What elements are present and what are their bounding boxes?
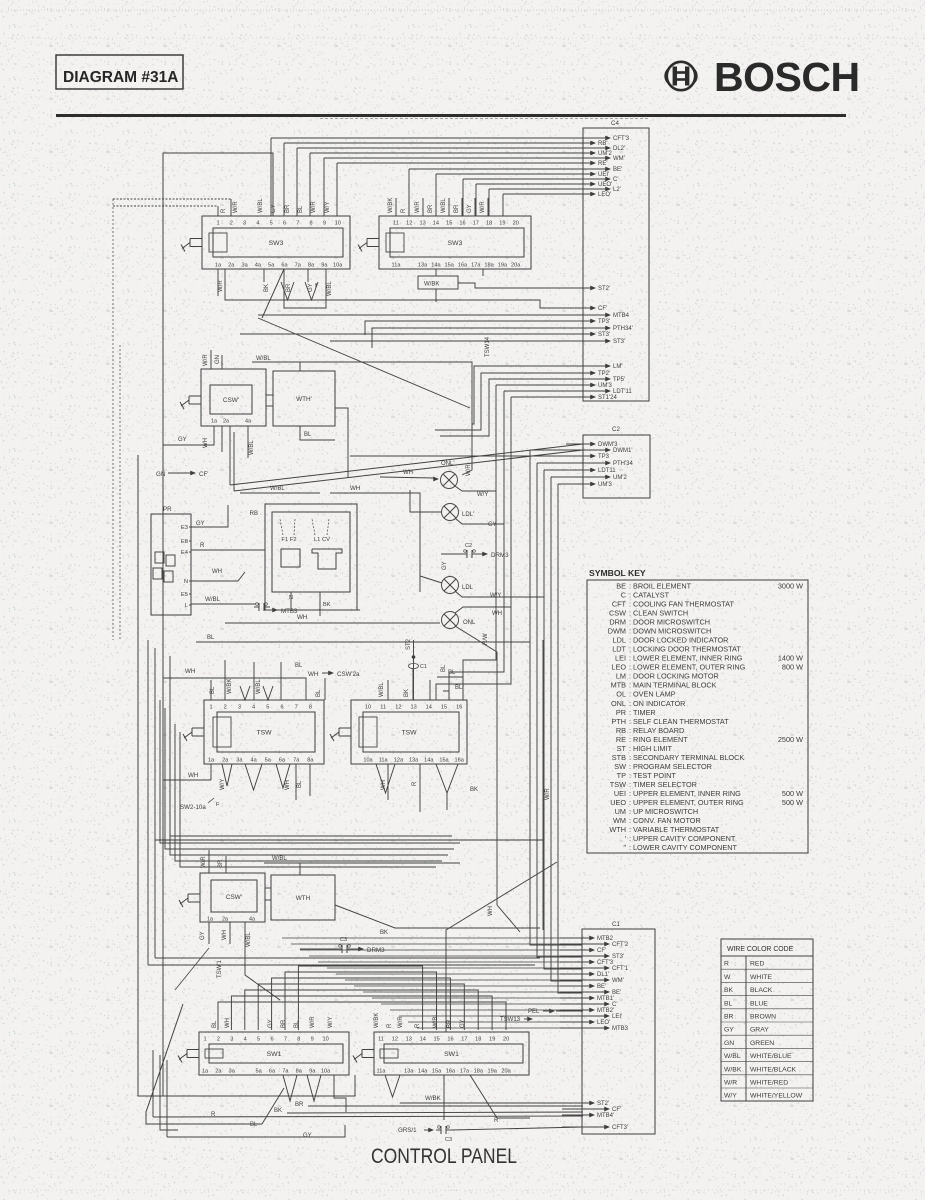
- svg-text:TSW: TSW: [401, 730, 417, 737]
- svg-text:16: 16: [447, 1037, 453, 1043]
- svg-text:R/W: R/W: [483, 633, 489, 645]
- svg-text:11a: 11a: [377, 1069, 387, 1075]
- svg-text:CFT'3: CFT'3: [613, 136, 630, 142]
- svg-text:9a: 9a: [309, 1069, 316, 1075]
- wire W/Y upper: [455, 486, 496, 498]
- lamp ONL upper: [380, 440, 472, 489]
- svg-text:WM': WM': [613, 156, 625, 162]
- svg-text:5: 5: [257, 1037, 260, 1043]
- svg-text:BL: BL: [212, 1020, 218, 1028]
- svg-text:SW1: SW1: [444, 1051, 459, 1058]
- wires into C1: [282, 938, 582, 1028]
- svg-text:WH: WH: [403, 470, 413, 476]
- svg-text:14: 14: [426, 705, 432, 711]
- svg-text:2: 2: [224, 705, 227, 711]
- svg-text:W/Y: W/Y: [220, 779, 226, 790]
- svg-text:WM': WM': [612, 978, 624, 984]
- svg-text:3a: 3a: [236, 758, 243, 764]
- svg-text:GN: GN: [724, 1040, 734, 1047]
- wire left rail 2: [137, 455, 139, 1088]
- svg-text:W/BK: W/BK: [388, 198, 394, 213]
- svg-text:LOCKING DOOR THERMOSTAT: LOCKING DOOR THERMOSTAT: [633, 645, 741, 654]
- svg-text:F1 F2: F1 F2: [281, 537, 296, 543]
- wire WH to TSW: [163, 678, 306, 700]
- svg-text:PTH34': PTH34': [613, 326, 633, 332]
- svg-text:10: 10: [322, 1037, 328, 1043]
- svg-text:LEI': LEI': [612, 1014, 622, 1020]
- thermostat WTH upper: [266, 371, 335, 426]
- svg-text:1: 1: [209, 705, 212, 711]
- svg-text:PTH'34: PTH'34: [613, 461, 633, 467]
- relay board RB: [250, 504, 357, 616]
- svg-text::: :: [629, 825, 631, 834]
- svg-text:8a: 8a: [308, 263, 315, 269]
- svg-text:W/BK: W/BK: [424, 282, 439, 288]
- svg-text:18a: 18a: [484, 263, 494, 269]
- wire WH long: [225, 614, 440, 623]
- switch SW3 upper-left: [181, 216, 350, 269]
- svg-text:W: W: [724, 974, 731, 981]
- svg-text:BL: BL: [441, 664, 447, 672]
- svg-text:12: 12: [392, 1037, 398, 1043]
- wire W/R diagonal to SW1: [446, 660, 557, 1032]
- svg-text:LDT11: LDT11: [598, 468, 616, 474]
- svg-text:CF': CF': [199, 471, 208, 478]
- caption CONTROL PANEL: [371, 1145, 517, 1168]
- svg-text:20: 20: [513, 221, 519, 227]
- wire BK lower: [335, 905, 540, 936]
- symbol key table: [587, 568, 808, 853]
- svg-text::: :: [629, 672, 631, 681]
- svg-text:LDT: LDT: [612, 645, 626, 654]
- svg-text:1400 W: 1400 W: [778, 654, 803, 663]
- svg-text:3: 3: [238, 705, 241, 711]
- svg-text:W/BL: W/BL: [256, 356, 271, 362]
- svg-text:DOWN MICROSWITCH: DOWN MICROSWITCH: [633, 627, 711, 636]
- svg-text:R: R: [412, 781, 418, 786]
- svg-text:UEO: UEO: [610, 798, 626, 807]
- svg-text:MTB: MTB: [611, 681, 627, 690]
- svg-text:DWM: DWM: [608, 627, 626, 636]
- svg-text:E5: E5: [181, 592, 188, 598]
- svg-text:3a: 3a: [241, 263, 248, 269]
- terminal block C2: [583, 426, 650, 498]
- svg-text:R: R: [401, 208, 407, 213]
- svg-text:6a: 6a: [281, 263, 288, 269]
- svg-text:W/R: W/R: [203, 354, 209, 366]
- svg-text:TP5': TP5': [613, 377, 625, 383]
- svg-text:CF': CF': [598, 306, 607, 312]
- svg-text:RE': RE': [598, 161, 607, 167]
- wire left bottom frame: [138, 1004, 183, 1137]
- svg-text:″: ″: [623, 843, 626, 852]
- svg-text:CLEAN SWITCH: CLEAN SWITCH: [633, 609, 688, 618]
- svg-text:E3: E3: [181, 525, 188, 531]
- svg-text:CSW': CSW': [223, 397, 239, 404]
- wire labels above SW3 upper-right: [388, 198, 486, 213]
- svg-text:16a: 16a: [458, 263, 468, 269]
- svg-text:UEO': UEO': [598, 182, 612, 188]
- svg-text:11a: 11a: [379, 758, 389, 764]
- svg-text:W/R: W/R: [480, 201, 486, 213]
- svg-text:WH: WH: [297, 614, 307, 621]
- svg-text:12: 12: [406, 221, 412, 227]
- svg-text:TEST POINT: TEST POINT: [633, 771, 676, 780]
- svg-text:ST2': ST2': [597, 1101, 609, 1107]
- svg-text:BL: BL: [250, 1122, 258, 1128]
- svg-text:MAIN TERMINAL BLOCK: MAIN TERMINAL BLOCK: [633, 681, 717, 690]
- svg-text:ONL: ONL: [463, 620, 476, 626]
- svg-text::: :: [629, 789, 631, 798]
- svg-text:20a: 20a: [511, 263, 521, 269]
- svg-text:18a: 18a: [474, 1069, 484, 1075]
- svg-text:DRM3: DRM3: [491, 552, 509, 559]
- svg-text:500 W: 500 W: [782, 798, 803, 807]
- svg-text:DWM1': DWM1': [613, 448, 632, 454]
- svg-text:BE': BE': [597, 984, 606, 990]
- svg-text:BK: BK: [470, 787, 478, 793]
- wire pair to left edge: [113, 199, 231, 206]
- svg-text:GY: GY: [308, 283, 314, 292]
- svg-text::: :: [629, 717, 631, 726]
- wire labels above SW1 left: [212, 1016, 334, 1028]
- svg-text:5: 5: [266, 705, 269, 711]
- svg-text::: :: [629, 708, 631, 717]
- svg-text:RB: RB: [616, 726, 626, 735]
- svg-text:BLUE: BLUE: [750, 1000, 768, 1007]
- wire stubs SW3 pins: [218, 198, 488, 216]
- svg-text:7a: 7a: [295, 263, 302, 269]
- svg-text:13: 13: [419, 221, 425, 227]
- net label MTB3: [254, 603, 360, 615]
- svg-text:10: 10: [365, 705, 371, 711]
- svg-text:WHITE/BLACK: WHITE/BLACK: [750, 1066, 797, 1073]
- svg-text:9a: 9a: [321, 263, 328, 269]
- svg-text:BL: BL: [724, 1000, 733, 1007]
- svg-text:W/BL: W/BL: [256, 679, 262, 694]
- svg-text:WHITE/YELLOW: WHITE/YELLOW: [750, 1093, 803, 1100]
- svg-text::: :: [629, 807, 631, 816]
- svg-text:·: ·: [763, 1188, 765, 1194]
- svg-text:WH: WH: [492, 611, 502, 617]
- lamp LDL lower: [420, 560, 474, 594]
- svg-text::: :: [629, 780, 631, 789]
- svg-text:13: 13: [410, 705, 416, 711]
- svg-text:MTB4: MTB4: [613, 313, 630, 319]
- svg-text::: :: [629, 744, 631, 753]
- svg-text:RE: RE: [616, 735, 626, 744]
- svg-text:LM': LM': [613, 364, 622, 370]
- wire diagonal SW3 to WTH: [258, 269, 470, 408]
- svg-text:4a: 4a: [255, 263, 262, 269]
- svg-text:CFT'1: CFT'1: [612, 966, 629, 972]
- wire outer frame top-left: [163, 153, 273, 1096]
- svg-text:16: 16: [456, 705, 462, 711]
- svg-text:E4: E4: [181, 550, 189, 556]
- wires below CSW upper: [163, 426, 335, 458]
- svg-text:LOWER CAVITY COMPONENT: LOWER CAVITY COMPONENT: [633, 843, 737, 852]
- svg-text:LEI: LEI: [615, 654, 626, 663]
- svg-text:W/BL: W/BL: [249, 440, 255, 455]
- svg-text:SW2-10a: SW2-10a: [180, 804, 206, 811]
- wire bundle feed left: [148, 640, 540, 965]
- svg-text::: :: [629, 771, 631, 780]
- svg-text:TIMER SELECTOR: TIMER SELECTOR: [633, 780, 697, 789]
- svg-text:18: 18: [475, 1037, 481, 1043]
- svg-text:16: 16: [459, 221, 465, 227]
- svg-text:DRM3: DRM3: [367, 947, 385, 954]
- svg-text:UPPER ELEMENT, OUTER RING: UPPER ELEMENT, OUTER RING: [633, 798, 744, 807]
- svg-text:RING ELEMENT: RING ELEMENT: [633, 735, 688, 744]
- svg-text:16a: 16a: [446, 1069, 456, 1075]
- svg-text:6a: 6a: [279, 758, 286, 764]
- svg-text:8: 8: [297, 1037, 300, 1043]
- svg-text:W/BL: W/BL: [272, 856, 287, 862]
- svg-text:DRM: DRM: [609, 618, 626, 627]
- svg-text::: :: [629, 618, 631, 627]
- terminal C4 middle rows: [565, 286, 633, 346]
- svg-text:N: N: [184, 579, 188, 585]
- Bosch logo emblem: [665, 62, 696, 90]
- svg-text:3: 3: [230, 1037, 233, 1043]
- wire W/BK below SW3 upper-right: [418, 269, 583, 302]
- svg-text::: :: [629, 690, 631, 699]
- svg-text:UP MICROSWITCH: UP MICROSWITCH: [633, 807, 698, 816]
- svg-text:BOSCH: BOSCH: [714, 54, 860, 100]
- svg-text:WH: WH: [222, 930, 228, 940]
- svg-text:BL: BL: [316, 689, 322, 697]
- svg-text:W/R: W/R: [415, 201, 421, 213]
- svg-text:5a: 5a: [265, 758, 272, 764]
- svg-text:ST1'24: ST1'24: [598, 395, 617, 401]
- svg-text:1a: 1a: [215, 263, 222, 269]
- svg-text:BK: BK: [404, 689, 410, 697]
- svg-text::: :: [629, 726, 631, 735]
- svg-text:8a: 8a: [307, 758, 314, 764]
- svg-text:W/Y: W/Y: [328, 1017, 334, 1028]
- svg-text:PTH: PTH: [611, 717, 626, 726]
- svg-text:CFT'2: CFT'2: [612, 942, 629, 948]
- wire bus C4 lower rows: [435, 366, 583, 700]
- switch SW1 right: [353, 1032, 529, 1075]
- svg-text:W/R: W/R: [218, 280, 224, 292]
- header rule: [56, 116, 846, 119]
- svg-text:CSW: CSW: [609, 609, 626, 618]
- svg-text:SW3: SW3: [448, 240, 463, 247]
- svg-text:GY: GY: [442, 561, 448, 570]
- svg-text::: :: [629, 645, 631, 654]
- svg-text:GY: GY: [724, 1027, 734, 1034]
- svg-text:R: R: [221, 208, 227, 213]
- svg-text:LEO': LEO': [598, 192, 611, 198]
- svg-text:GY: GY: [268, 1019, 274, 1028]
- svg-text:W/BL: W/BL: [441, 198, 447, 213]
- switch CSW upper: [180, 369, 266, 426]
- net label TSW1: [175, 948, 223, 990]
- svg-text:2a: 2a: [223, 419, 229, 425]
- svg-text:WH: WH: [225, 1018, 231, 1028]
- svg-text:16a: 16a: [455, 758, 465, 764]
- svg-text:2a: 2a: [222, 758, 229, 764]
- svg-text:15a: 15a: [445, 263, 455, 269]
- net label GN to CF: [156, 471, 208, 478]
- svg-text:2a: 2a: [215, 1069, 222, 1075]
- svg-text:19: 19: [499, 221, 505, 227]
- svg-text:BR: BR: [724, 1014, 734, 1021]
- svg-text:RB: RB: [250, 511, 258, 517]
- svg-text:LOWER ELEMENT, OUTER RING: LOWER ELEMENT, OUTER RING: [633, 663, 746, 672]
- svg-text:BR: BR: [218, 859, 224, 868]
- svg-text:W/R: W/R: [201, 856, 207, 868]
- svg-text:1a: 1a: [211, 419, 217, 425]
- svg-text:UEI: UEI: [614, 789, 626, 798]
- svg-text:WH: WH: [188, 772, 198, 779]
- switch SW3 upper-right: [358, 216, 531, 269]
- svg-text::: :: [629, 600, 631, 609]
- svg-text:BL: BL: [207, 635, 215, 641]
- wire R/W diagonal: [455, 626, 497, 660]
- svg-text:CFT3': CFT3': [612, 1125, 628, 1131]
- net label SW2-10a: [180, 798, 220, 811]
- svg-text:ST2': ST2': [598, 286, 610, 292]
- wire dark horizontal: [155, 839, 543, 841]
- svg-text:6: 6: [280, 705, 283, 711]
- svg-text::: :: [629, 654, 631, 663]
- svg-text::: :: [629, 816, 631, 825]
- wire diagonal pair to C2: [230, 408, 583, 491]
- svg-text:W/R: W/R: [310, 1016, 316, 1028]
- svg-text:LEO: LEO: [611, 663, 626, 672]
- svg-text:17: 17: [473, 221, 479, 227]
- svg-text:W/BL: W/BL: [379, 682, 385, 697]
- svg-text::: :: [629, 627, 631, 636]
- svg-text:TSW14: TSW14: [485, 336, 491, 357]
- svg-text:W/BL: W/BL: [246, 932, 252, 947]
- svg-text::: :: [629, 699, 631, 708]
- svg-text:ST3': ST3': [612, 954, 624, 960]
- svg-text:2a: 2a: [228, 263, 235, 269]
- svg-text:BE: BE: [616, 582, 626, 591]
- svg-text:11: 11: [393, 221, 399, 227]
- wire GY upper: [455, 518, 504, 528]
- svg-text:9: 9: [323, 221, 326, 227]
- svg-text:14a: 14a: [424, 758, 434, 764]
- svg-text:PR: PR: [616, 708, 626, 717]
- svg-text:C1: C1: [612, 921, 620, 928]
- svg-text:W/BK: W/BK: [724, 1066, 742, 1073]
- svg-text:R: R: [415, 1023, 421, 1028]
- svg-text:BL: BL: [304, 432, 312, 438]
- svg-text:19a: 19a: [498, 263, 508, 269]
- svg-text:15: 15: [441, 705, 447, 711]
- svg-text:5: 5: [270, 221, 273, 227]
- svg-text:20: 20: [503, 1037, 509, 1043]
- svg-text:GY: GY: [303, 1133, 312, 1139]
- svg-text:BR: BR: [285, 204, 291, 213]
- svg-text:F: F: [216, 802, 220, 808]
- svg-text:UM: UM: [615, 807, 626, 816]
- svg-text:4a: 4a: [250, 758, 257, 764]
- svg-text:CSW'2a: CSW'2a: [337, 671, 360, 678]
- wire bundle to SW1 switches: [218, 966, 506, 1030]
- svg-text:W/R: W/R: [724, 1080, 737, 1087]
- svg-text:C3: C3: [445, 1137, 452, 1143]
- svg-text:R: R: [494, 1118, 499, 1124]
- svg-text:R: R: [387, 1023, 393, 1028]
- svg-text:W/BL: W/BL: [258, 198, 264, 213]
- svg-text:7: 7: [295, 705, 298, 711]
- svg-text:L1 CV: L1 CV: [314, 537, 330, 543]
- svg-text:SYMBOL KEY: SYMBOL KEY: [589, 568, 646, 578]
- svg-text::: :: [629, 681, 631, 690]
- terminal block C4: [583, 120, 649, 401]
- svg-text:W/Y: W/Y: [325, 202, 331, 213]
- svg-text::: :: [629, 834, 631, 843]
- svg-text:· ··: · ··: [450, 1188, 458, 1194]
- svg-text:1: 1: [203, 1037, 206, 1043]
- svg-text:TP3: TP3: [598, 454, 610, 460]
- microswitch DRM3 upper: [441, 543, 509, 570]
- svg-text:ONL': ONL': [441, 461, 454, 467]
- net label TSW13: [500, 1017, 533, 1023]
- svg-text:UM'3: UM'3: [598, 482, 612, 488]
- svg-text:BR: BR: [454, 204, 460, 213]
- svg-text:11: 11: [378, 1037, 384, 1043]
- svg-text:DOOR MICROSWITCH: DOOR MICROSWITCH: [633, 618, 710, 627]
- svg-text:14a: 14a: [418, 1069, 428, 1075]
- svg-text:5a: 5a: [255, 1069, 262, 1075]
- wire colour code table: [721, 939, 813, 1101]
- svg-text:GRAY: GRAY: [750, 1027, 769, 1034]
- svg-text:GY: GY: [200, 931, 206, 940]
- terminal C4 lower rows: [565, 364, 632, 402]
- svg-text:WH: WH: [285, 780, 291, 790]
- svg-text:SELF CLEAN THERMOSTAT: SELF CLEAN THERMOSTAT: [633, 717, 729, 726]
- svg-text:BR: BR: [281, 1019, 287, 1028]
- svg-text:BLACK: BLACK: [750, 987, 773, 994]
- wires below CSW lower: [200, 922, 280, 1000]
- svg-text:15a: 15a: [439, 758, 449, 764]
- svg-text:OVEN LAMP: OVEN LAMP: [633, 690, 676, 699]
- svg-text:W/BL: W/BL: [724, 1053, 741, 1060]
- svg-text:WH: WH: [212, 569, 222, 575]
- svg-text:SECONDARY TERMINAL BLOCK: SECONDARY TERMINAL BLOCK: [633, 753, 744, 762]
- net label PEL: [528, 1009, 583, 1015]
- switch TSW left: [183, 700, 324, 764]
- svg-text:RED: RED: [750, 961, 764, 968]
- microswitch DRM3 lower: [300, 937, 385, 954]
- svg-text:BK: BK: [380, 930, 388, 936]
- wires into C4 middle rows: [225, 269, 583, 348]
- svg-text:6: 6: [270, 1037, 273, 1043]
- svg-text:W/BL: W/BL: [270, 486, 285, 492]
- svg-text:LM: LM: [616, 672, 626, 681]
- svg-text:W/BK: W/BK: [227, 679, 233, 694]
- svg-text:8: 8: [310, 221, 313, 227]
- svg-text:LEO': LEO': [597, 1020, 610, 1026]
- svg-text:WHITE/BLUE: WHITE/BLUE: [750, 1053, 792, 1060]
- svg-text::: :: [629, 735, 631, 744]
- svg-text:5a: 5a: [268, 263, 275, 269]
- svg-text:ST3': ST3': [598, 332, 610, 338]
- terminal C1 upper rows: [560, 936, 629, 1033]
- svg-text:C2: C2: [465, 543, 472, 549]
- svg-text:BL: BL: [297, 780, 303, 788]
- svg-text:E8: E8: [181, 539, 188, 545]
- wire W/R right mid: [543, 640, 551, 930]
- svg-text:LDL: LDL: [462, 585, 474, 591]
- svg-text:DIAGRAM #31A: DIAGRAM #31A: [63, 69, 178, 86]
